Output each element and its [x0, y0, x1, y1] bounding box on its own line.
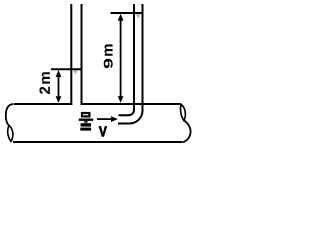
V flow arrow — [97, 118, 112, 120]
물: u-vowel stem — [84, 121, 87, 123]
hangul 물 (water) drawn as shapes: mieum box — [82, 113, 89, 116]
pipe right broken-end rim — [182, 120, 190, 142]
9m arrow down — [118, 96, 124, 103]
물: u-vowel horizontal bar — [79, 119, 93, 121]
piezometer tube left wall — [70, 4, 72, 105]
9m label — [104, 59, 113, 68]
water surface marker (piezometer) — [73, 71, 77, 75]
piezometer tube right wall — [81, 4, 83, 105]
water surface marker (pitot tube) — [136, 14, 140, 18]
2m arrow down — [56, 96, 62, 103]
9m dimension line — [120, 17, 122, 99]
pitot water level line + 9m tick — [111, 12, 144, 14]
물: rieul top bar — [81, 123, 91, 126]
9m arrow up — [118, 14, 124, 21]
pipe top edge right segment — [81, 103, 181, 105]
pitot tube outer wall — [118, 4, 143, 124]
2m dimension line — [58, 73, 60, 99]
V label — [99, 126, 107, 136]
pipe left broken-end lens — [8, 126, 13, 142]
piezometer water level line + 2m tick — [51, 68, 83, 70]
pitot tube inner wall — [119, 4, 135, 115]
물: rieul bottom bar — [80, 128, 91, 131]
pipe top edge left segment — [14, 103, 72, 105]
2m arrow up — [56, 70, 62, 77]
pipe left broken-end rim — [6, 104, 14, 126]
pipe bottom edge — [13, 141, 182, 143]
2m label — [39, 87, 49, 94]
pipe right broken-end lens — [181, 104, 186, 120]
